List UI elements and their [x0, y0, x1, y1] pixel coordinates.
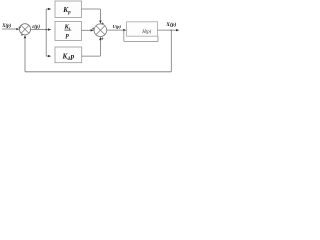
wire branch to Ki block — [46, 28, 51, 30]
wire H block shadow bottom — [124, 40, 158, 42]
wire branch vertical — [45, 9, 47, 56]
S2 plus sign left — [92, 27, 94, 29]
summing junction S2 — [94, 24, 107, 37]
S2 plus sign top — [102, 22, 104, 24]
wire Ki output to summer S2 left — [82, 29, 95, 31]
svg-text:p: p — [70, 53, 75, 61]
wire feedback bottom — [25, 71, 171, 73]
svg-text:X(p): X(p) — [165, 21, 176, 28]
wire feedback to S1 bottom — [24, 35, 26, 72]
block Kd p — [55, 47, 82, 63]
svg-text:H(p): H(p) — [141, 30, 151, 35]
block Ki over p — [55, 21, 82, 40]
node epsilon(p) label — [32, 25, 40, 30]
wire branch to Kp block — [46, 8, 51, 10]
wire Kd output to summer S2 bottom — [82, 37, 102, 56]
node U(p) label — [113, 24, 122, 29]
block Kp — [55, 1, 82, 17]
wire Kp output to summer S2 top — [82, 9, 102, 24]
wire H block to output — [158, 29, 180, 31]
wire S1 to branch node — [31, 29, 47, 31]
branch node junction dot — [45, 29, 47, 31]
node X(p) input label — [1, 24, 11, 29]
svg-text:U(p): U(p) — [113, 24, 122, 29]
output junction dot — [171, 29, 172, 30]
block H(p) — [127, 22, 158, 36]
svg-text:p: p — [65, 32, 69, 39]
wire H block shadow left — [123, 30, 125, 41]
wire branch to Kd block — [46, 55, 51, 57]
svg-text:X(p): X(p) — [1, 24, 11, 29]
S1 plus sign — [19, 26, 21, 28]
S1 minus sign — [21, 34, 23, 36]
svg-text:p: p — [67, 10, 71, 15]
wire H block shadow right — [157, 36, 159, 41]
wire feedback vertical right — [170, 30, 172, 72]
wire input X(p) to summer S1 — [2, 28, 20, 30]
S2 plus sign bottom — [101, 38, 103, 40]
node X(p) output label — [165, 21, 176, 28]
summing junction S1 — [19, 24, 30, 35]
wire S2 to H block — [107, 29, 127, 31]
